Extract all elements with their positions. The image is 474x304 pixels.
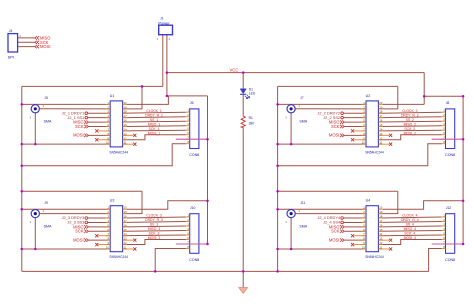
- no-connect pin12 U2: [378, 134, 389, 136]
- no-connect pin12 U3: [123, 239, 134, 241]
- pin stubs U3 left: [106, 209, 110, 249]
- svg-text:CLOCK_3: CLOCK_3: [146, 214, 162, 218]
- wire CLOCK_1: [123, 112, 186, 113]
- op-amp buffer U1 SN54HC244 body: [110, 101, 122, 147]
- wire SS3 to pin4: [88, 221, 111, 223]
- connector J4 body: [8, 34, 18, 52]
- no-connect pin11 U4: [378, 248, 389, 250]
- junction rail GND U2: [276, 143, 279, 146]
- pin numbers U4 right: [379, 206, 382, 250]
- wire GND pin10 U2: [278, 143, 366, 145]
- wire ground line block3 pin19: [22, 190, 142, 192]
- pin stubs J8: [442, 112, 446, 144]
- wire ground top line left: [22, 85, 163, 87]
- svg-text:390: 390: [249, 122, 255, 126]
- wire SS2 to pin4: [343, 117, 366, 119]
- svg-text:DRDY_R_2: DRDY_R_2: [401, 113, 419, 117]
- svg-text:SMA: SMA: [299, 224, 307, 228]
- svg-text:MOSI_2: MOSI_2: [404, 131, 417, 135]
- wire MOSI to pin8 U4: [344, 239, 366, 241]
- wire GND pin10 U1: [22, 143, 110, 145]
- svg-text:MOSI: MOSI: [73, 238, 83, 243]
- bubble SS1: [85, 116, 88, 119]
- svg-text:SCK: SCK: [331, 229, 340, 234]
- wire VCC right branch: [424, 95, 463, 97]
- junction SMA shield J5: [34, 143, 37, 146]
- LED D1: [240, 89, 246, 94]
- junction GND pin8 J6 rail: [21, 164, 24, 167]
- wire MOSI to pin8 U2: [344, 134, 366, 136]
- svg-text:R1: R1: [249, 116, 253, 120]
- svg-text:CON8: CON8: [445, 258, 455, 262]
- wire SCK to pin6 U3: [89, 230, 111, 232]
- svg-text:CLOCK_4: CLOCK_4: [402, 214, 418, 218]
- chevron MISO U1: [84, 120, 88, 123]
- wire VCC pin7 J10: [176, 243, 208, 245]
- pin stubs J12: [442, 217, 446, 249]
- wire SS_4: [378, 225, 441, 228]
- no-connect pin12 U4: [378, 239, 389, 241]
- wire bottom ground rail: [22, 270, 429, 272]
- wire OE pin1 U1: [22, 103, 110, 105]
- no-connect pin9 U4: [354, 244, 366, 246]
- wire CLOCK_2: [378, 112, 441, 113]
- chevron SCK U1: [84, 125, 88, 128]
- svg-text:J11: J11: [300, 201, 305, 205]
- wire J4 MISO: [18, 37, 35, 39]
- junction VCC branch left: [166, 95, 169, 98]
- pin numbers U2 right: [379, 101, 382, 145]
- pin numbers U2 left: [362, 101, 366, 145]
- connector J9 SMA: [31, 210, 39, 218]
- svg-text:MOSI: MOSI: [329, 238, 339, 243]
- pin stubs J6: [186, 112, 190, 144]
- junction rail GND U4: [276, 248, 279, 251]
- svg-text:SN54HC244: SN54HC244: [365, 255, 384, 259]
- pin stubs J10: [186, 217, 190, 249]
- pin numbers U3 right: [124, 206, 127, 250]
- pin stubs U1 left: [106, 104, 110, 144]
- wire DRDY3 to pin3: [88, 217, 111, 219]
- wire left ground rail: [21, 86, 23, 271]
- chevron MISO J4: [35, 36, 39, 39]
- wire VCC bus left: [207, 96, 209, 244]
- wire SS4 to pin4: [343, 221, 366, 223]
- wire MISO_2: [378, 125, 441, 128]
- junction VCC pin7 J6: [206, 138, 209, 141]
- wire VCC main: [167, 72, 424, 74]
- wire MISO to pin5 U1: [89, 121, 111, 123]
- junction VCC right branch: [423, 95, 426, 98]
- wire GND pin10 U3: [22, 248, 110, 250]
- wire MOSI to pin8 U1: [89, 134, 111, 136]
- svg-text:SCK_3: SCK_3: [149, 232, 160, 236]
- chevron MOSI U2: [340, 134, 344, 137]
- svg-text:LED: LED: [249, 91, 256, 95]
- wire MOSI_2: [378, 135, 441, 140]
- no-connect pin11 U3: [123, 248, 134, 250]
- wire DRDY_R_1: [123, 116, 186, 119]
- connector J7 SMA: [287, 105, 295, 113]
- bubble DRDY2: [341, 112, 344, 115]
- bubble DRDY3: [85, 217, 88, 220]
- pin stubs U4 right: [378, 209, 382, 249]
- junction VCC tap U4: [462, 199, 465, 202]
- wire J4 MOSI: [18, 46, 35, 48]
- bubble DRDY4: [341, 217, 344, 220]
- svg-text:SCK_2: SCK_2: [404, 127, 415, 131]
- wire J1 pin2 down VCC: [166, 35, 168, 96]
- svg-text:MOSI: MOSI: [40, 44, 50, 49]
- resistor R1: [241, 115, 245, 128]
- svg-text:U2: U2: [366, 94, 371, 98]
- svg-text:DRDY_R_4: DRDY_R_4: [401, 218, 419, 222]
- svg-text:MOSI_3: MOSI_3: [148, 236, 161, 240]
- svg-text:J6: J6: [190, 101, 194, 105]
- svg-text:SPI: SPI: [8, 54, 14, 59]
- svg-text:SS_1: SS_1: [150, 118, 158, 122]
- wire GND pin8 J12: [429, 249, 442, 272]
- wire MISO_3: [123, 230, 186, 233]
- bubble SS2: [341, 116, 344, 119]
- no-connect pin12 U1: [123, 134, 134, 136]
- wire SMA shield drop J5: [34, 113, 36, 144]
- no-connect pin9 U2: [354, 139, 366, 141]
- connector J5 SMA: [31, 105, 39, 113]
- svg-text:U1: U1: [110, 94, 115, 98]
- wire pin19 U4 to ground line: [378, 191, 397, 213]
- svg-text:J4: J4: [9, 29, 13, 33]
- svg-text:CLOCK_2: CLOCK_2: [402, 109, 418, 113]
- op-amp buffer U2 SN54HC244 body: [366, 101, 378, 147]
- svg-text:CLOCK_1: CLOCK_1: [146, 109, 162, 113]
- svg-text:DRDY_R_3: DRDY_R_3: [145, 218, 163, 222]
- junction middle rail bottom: [276, 270, 279, 273]
- wire GND pin10 U4: [278, 248, 366, 250]
- svg-text:CON8: CON8: [189, 258, 199, 262]
- svg-text:DRDY_R_1: DRDY_R_1: [145, 113, 163, 117]
- no-connect pin9 U3: [98, 244, 110, 246]
- svg-text:SN54HC244: SN54HC244: [365, 150, 384, 154]
- no-connect pin11 U2: [378, 143, 389, 145]
- junction rail GND U3: [21, 248, 24, 251]
- wire VCC bus right: [462, 96, 464, 244]
- wire pin19 U2 to ground line: [378, 86, 397, 108]
- wire SS_2: [378, 120, 441, 123]
- connector J6 CON8 body: [190, 109, 199, 149]
- chevron MISO U4: [340, 225, 344, 228]
- wire SMA signal J9 to U3 pin2: [40, 213, 111, 215]
- wire OE pin1 U2: [278, 103, 366, 105]
- wire SS_1: [123, 120, 186, 123]
- wire SCK_2: [378, 129, 441, 132]
- svg-text:MOSI_1: MOSI_1: [148, 131, 161, 135]
- wire GND pin8 J10: [155, 249, 186, 272]
- svg-text:J5: J5: [44, 96, 48, 100]
- bubble SS3: [85, 221, 88, 224]
- wire DRDY1 to pin3: [88, 112, 111, 114]
- wire R1 to ground: [242, 128, 244, 287]
- wire DRDY4 to pin3: [343, 217, 366, 219]
- wire MOSI to pin8 U3: [89, 239, 111, 241]
- svg-text:SMA: SMA: [299, 120, 307, 124]
- svg-text:SMA: SMA: [44, 224, 52, 228]
- wire VCC tap U3 pin20: [127, 201, 208, 210]
- svg-text:J8: J8: [446, 101, 450, 105]
- svg-text:MOSI: MOSI: [73, 133, 83, 138]
- junction SMA shield J11: [290, 248, 293, 251]
- no-connect pin7 U1: [98, 130, 110, 132]
- wire CLOCK_3: [123, 217, 186, 218]
- no-connect pin9 U1: [98, 139, 110, 141]
- wire VCC to LED: [242, 73, 244, 89]
- no-connect pin7 U4: [354, 235, 366, 237]
- bubble SS4: [341, 221, 344, 224]
- junction rail OE U4: [276, 208, 279, 211]
- wire MOSI_3: [123, 240, 186, 245]
- junction VCC pin7 J10: [206, 243, 209, 246]
- svg-text:U3: U3: [110, 199, 115, 203]
- svg-text:SCK_4: SCK_4: [404, 232, 415, 236]
- junction pin19 tap U1: [141, 85, 144, 88]
- wire DRDY_R_4: [378, 221, 441, 224]
- pin numbers J12: [443, 214, 445, 250]
- wire SCK to pin6 U2: [344, 126, 366, 128]
- svg-text:SCK: SCK: [75, 229, 84, 234]
- junction SMA shield J9: [34, 248, 37, 251]
- junction VCC pin7 J8: [462, 138, 465, 141]
- svg-text:SMA: SMA: [44, 120, 52, 124]
- bubble DRDY1: [85, 112, 88, 115]
- chevron SCK U4: [340, 230, 344, 233]
- wire ground line block4 pin19: [278, 190, 398, 192]
- wire MISO to pin5 U4: [344, 226, 366, 228]
- wire VCC to U2 pin20: [383, 103, 424, 105]
- wire SMA signal J7 to U2 pin2: [295, 108, 366, 110]
- wire OE pin1 U3: [22, 208, 110, 210]
- pin stubs U1 right: [123, 104, 127, 144]
- wire OE pin1 U4: [278, 208, 366, 210]
- pin numbers J8: [443, 109, 445, 145]
- pin stubs U2 left: [362, 104, 366, 144]
- pin numbers J10: [187, 214, 189, 250]
- wire pin19 U1 to ground line: [123, 86, 142, 108]
- svg-text:SN54HC244: SN54HC244: [109, 255, 128, 259]
- svg-text:CON8: CON8: [445, 153, 455, 157]
- junction bottom rail LED: [242, 270, 245, 273]
- svg-text:CON8: CON8: [189, 153, 199, 157]
- junction rail block4 pin19: [276, 190, 279, 193]
- svg-text:MISO_3: MISO_3: [148, 227, 161, 231]
- wire MOSI_4: [378, 240, 441, 245]
- wire VCC tap U4 pin20: [383, 201, 463, 210]
- chevron MISO U3: [84, 225, 88, 228]
- wire SCK_4: [378, 234, 441, 237]
- junction GND pin8 J10 rail: [154, 270, 157, 273]
- wire SS_3: [123, 225, 186, 228]
- wire SCK to pin6 U1: [89, 126, 111, 128]
- pin numbers U1 left: [106, 101, 110, 145]
- wire U1 pin20 jog: [127, 96, 168, 105]
- wire pin19 U3 to ground line: [123, 191, 142, 213]
- wire LED to R1: [242, 94, 244, 115]
- junction rail GND U1: [21, 143, 24, 146]
- chevron MOSI U1: [84, 134, 88, 137]
- wire SCK to pin6 U4: [344, 230, 366, 232]
- svg-text:J7: J7: [300, 96, 304, 100]
- wire MISO_4: [378, 230, 441, 233]
- wire SCK_1: [123, 129, 186, 132]
- connector J1 body: [159, 25, 173, 35]
- wire CLOCK_4: [378, 217, 441, 218]
- wire SS1 to pin4: [88, 117, 111, 119]
- wire J1 pin1 down: [162, 35, 164, 87]
- no-connect pin7 U3: [98, 235, 110, 237]
- wire MISO to pin5 U3: [89, 226, 111, 228]
- wire DRDY_R_3: [123, 221, 186, 224]
- op-amp buffer U3 SN54HC244 body: [110, 206, 122, 252]
- chevron MOSI U4: [340, 238, 344, 241]
- connector J10 CON8 body: [190, 214, 199, 254]
- wire SCK_3: [123, 234, 186, 237]
- junction VCC pin7 J12: [462, 243, 465, 246]
- pin numbers U4 left: [362, 206, 366, 250]
- chevron SCK J4: [35, 41, 39, 44]
- pin stubs U2 right: [378, 104, 382, 144]
- wire middle ground rail blocks 2-4: [277, 86, 279, 271]
- svg-text:J10: J10: [190, 206, 196, 210]
- wire GND pin8 J6: [22, 144, 186, 166]
- junction GND pin8 J8 rail: [276, 164, 279, 167]
- pin numbers J6: [187, 109, 189, 145]
- wire DRDY_R_2: [378, 116, 441, 119]
- junction rail block3 pin19: [21, 190, 24, 193]
- wire GND pin8 J8: [278, 144, 442, 166]
- junction SMA shield J7: [290, 143, 293, 146]
- wire VCC branch left: [167, 95, 208, 97]
- wire DRDY2 to pin3: [343, 112, 366, 114]
- svg-text:MOSI: MOSI: [329, 133, 339, 138]
- svg-text:MISO_2: MISO_2: [404, 122, 417, 126]
- svg-text:J9: J9: [44, 201, 48, 205]
- junction VCC bus right top: [462, 95, 465, 98]
- svg-text:SCK: SCK: [331, 124, 340, 129]
- chevron MISO U2: [340, 120, 344, 123]
- junction VCC LED: [242, 71, 245, 74]
- wire SMA shield drop J9: [34, 218, 36, 249]
- svg-text:VCC: VCC: [230, 67, 239, 72]
- chevron MOSI J4: [35, 45, 39, 48]
- svg-text:MISO_4: MISO_4: [404, 227, 417, 231]
- connector J8 CON8 body: [446, 109, 455, 149]
- svg-text:Power: Power: [158, 20, 170, 25]
- wire VCC pin7 J6: [176, 138, 208, 140]
- wire SMA signal J11 to U4 pin2: [295, 213, 366, 215]
- no-connect pin11 U1: [123, 143, 134, 145]
- wire MISO to pin5 U2: [344, 121, 366, 123]
- wire SMA shield drop J11: [290, 218, 292, 249]
- svg-text:SCK: SCK: [75, 124, 84, 129]
- wire VCC drop right: [423, 73, 425, 105]
- junction rail OE U3: [21, 208, 24, 211]
- chevron SCK U2: [340, 125, 344, 128]
- pin numbers U3 left: [106, 206, 110, 250]
- svg-text:SS_2: SS_2: [406, 118, 414, 122]
- svg-text:MOSI_4: MOSI_4: [404, 236, 417, 240]
- pin stubs U3 right: [123, 209, 127, 249]
- wire VCC pin7 J12: [432, 243, 463, 245]
- connector J12 CON8 body: [446, 214, 455, 254]
- wire J4 SCK: [18, 41, 35, 43]
- wire SMA signal J5 to U1 pin2: [40, 108, 111, 110]
- svg-text:MISO_1: MISO_1: [148, 122, 161, 126]
- chevron SCK U3: [84, 230, 88, 233]
- no-connect pin7 U2: [354, 130, 366, 132]
- junction rail OE U1: [21, 103, 24, 106]
- pin numbers U1 right: [124, 101, 127, 145]
- wire SMA shield drop J7: [290, 113, 292, 144]
- wire MISO_1: [123, 125, 186, 128]
- ground: [239, 288, 248, 294]
- svg-text:SS_3: SS_3: [150, 223, 158, 227]
- junction VCC tap U3: [206, 199, 209, 202]
- svg-text:SS_4: SS_4: [406, 223, 414, 227]
- svg-text:SN54HC244: SN54HC244: [109, 150, 128, 154]
- wire ground top line right: [278, 85, 398, 87]
- chevron MOSI U3: [84, 238, 88, 241]
- svg-text:SCK_1: SCK_1: [149, 127, 160, 131]
- op-amp buffer U4 SN54HC244 body: [366, 206, 378, 252]
- svg-text:J12: J12: [446, 206, 452, 210]
- wire MOSI_1: [123, 135, 186, 140]
- pin stubs U4 left: [362, 209, 366, 249]
- junction VCC at J1: [166, 71, 169, 74]
- svg-text:U4: U4: [366, 199, 371, 203]
- junction rail OE U2: [276, 103, 279, 106]
- connector J11 SMA: [287, 210, 295, 218]
- wire VCC pin7 J8: [432, 138, 463, 140]
